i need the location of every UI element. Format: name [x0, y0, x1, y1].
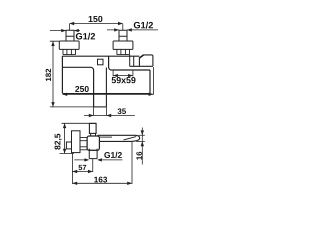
G1/2 leader left inlet: [50, 30, 80, 32]
dim 150 text: [89, 16, 103, 22]
spout bottom edge: [99, 140, 136, 143]
G1/2 leader shower outlet: [74, 159, 122, 161]
body bottom edge: [62, 93, 150, 95]
right inlet nut: [117, 49, 130, 54]
spout side view top edge: [98, 135, 140, 140]
cartridge collar lines: [130, 55, 134, 67]
left inlet pipe: [66, 30, 74, 41]
dim 16 text: [136, 152, 142, 160]
spout inner top line: [99, 136, 112, 138]
extension line 182 bottom: [50, 106, 94, 108]
dim 35 text: [118, 108, 127, 114]
body right edge: [149, 70, 151, 94]
valve body side view: [87, 136, 99, 150]
dimension 16 line: [136, 128, 145, 165]
G1/2 leader right inlet: [107, 29, 158, 31]
handle neck side view: [91, 133, 96, 136]
dim 57 text: [79, 165, 87, 170]
diverter square: [98, 59, 104, 65]
wall pipe stub: [66, 142, 71, 149]
G1/2 label right inlet: [134, 22, 153, 29]
dimension 59x59 line: [113, 71, 133, 77]
dimension 182 line: [50, 41, 59, 107]
body top-left corner and left edge: [61, 56, 63, 93]
handle knob side view: [89, 123, 96, 133]
spout edge extension lines down: [94, 107, 107, 116]
dimension 57 line: [72, 159, 92, 172]
dim 59x59 text: [112, 77, 136, 83]
right inlet pipe: [119, 30, 127, 41]
dim 82.5 text: [55, 134, 62, 150]
shower outlet: [89, 149, 97, 159]
dimension 163 line: [72, 142, 132, 184]
connection nut side view: [80, 138, 87, 150]
body right section step: [109, 56, 150, 70]
dim 250 text: [75, 86, 89, 92]
spout front edge top view: [94, 106, 107, 108]
G1/2 label left inlet: [76, 33, 95, 40]
body inner front edge left section: [62, 67, 93, 107]
dimension 250 line: [62, 67, 153, 95]
spout inner lip: [124, 137, 137, 140]
dim 182 text: [46, 69, 52, 81]
dimension 82.5 line: [60, 123, 75, 153]
body top edge: [62, 55, 139, 57]
handle chamfer: [139, 55, 143, 58]
spout right edge top view: [105, 68, 107, 107]
dimension 35 line: [84, 115, 135, 117]
side view top extension line: [62, 122, 97, 124]
left inlet nut: [63, 49, 76, 54]
dim 163 text: [94, 177, 107, 183]
wall flange side view: [72, 131, 81, 153]
dimension 150 arrows: [69, 22, 122, 25]
dimension 150 line: [69, 24, 122, 31]
G1/2 label shower outlet: [104, 152, 122, 158]
right inlet flange: [113, 41, 133, 49]
handle top view: [130, 55, 153, 66]
left inlet flange: [59, 41, 79, 49]
